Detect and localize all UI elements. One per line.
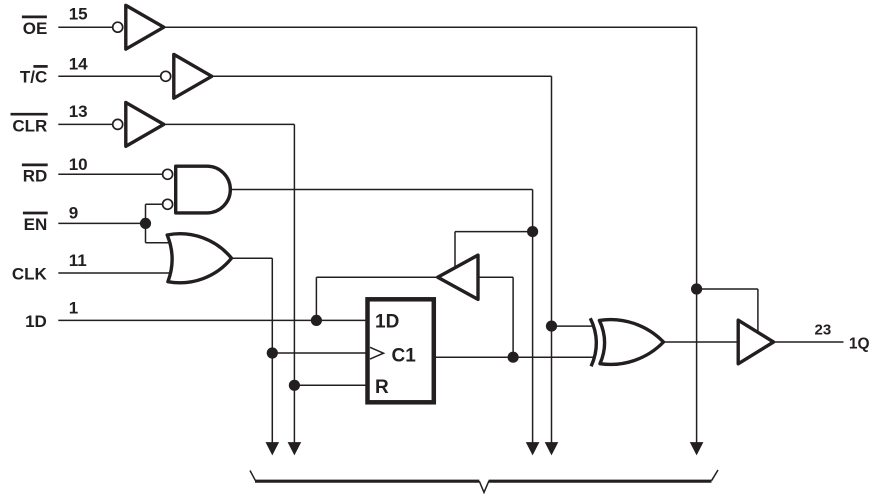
AND gate G1 (RD,EN inverting inputs): [163, 166, 231, 213]
svg-text:11: 11: [69, 251, 87, 270]
wire AND vertical: [532, 190, 534, 447]
svg-text:OE: OE: [23, 19, 48, 38]
wire feedback vertical: [512, 277, 514, 357]
input label T/C (overline on C): [20, 66, 48, 86]
svg-text:9: 9: [69, 204, 78, 223]
junction dot CLR net: [289, 380, 300, 391]
arrow to other channels (CLR net): [288, 442, 302, 455]
svg-text:CLK: CLK: [12, 264, 48, 283]
wire EN input: [58, 222, 145, 224]
wire T/C vertical: [551, 76, 553, 446]
wire AND net to inverter enable: [455, 231, 533, 233]
svg-text:R: R: [375, 377, 389, 398]
wire CLK input: [58, 272, 170, 274]
wire output enable vertical: [757, 289, 759, 332]
wire OR vertical (clock net): [271, 258, 273, 446]
wire RD input: [58, 173, 162, 175]
buffer U1 OE (inverting input bubble): [113, 5, 164, 49]
flip-flop clock wedge: [370, 347, 384, 359]
junction dot clock net: [267, 347, 278, 358]
output buffer U6: [738, 320, 773, 364]
wire OE input: [58, 26, 112, 28]
junction dot T/C net: [546, 321, 557, 332]
input label EN (with overline): [23, 213, 48, 234]
wire 1D input: [58, 319, 367, 321]
wire OE net: [164, 26, 697, 28]
wire inverter enable vertical: [454, 232, 456, 267]
svg-text:EN: EN: [24, 215, 48, 234]
input label CLR (with overline): [11, 114, 48, 135]
junction dot Q/feedback: [507, 352, 518, 363]
svg-text:RD: RD: [23, 167, 48, 186]
svg-text:CLR: CLR: [12, 116, 47, 135]
inverter U5 (feedback, points left): [438, 255, 478, 299]
flip-flop U4 box: [368, 299, 434, 402]
XOR gate G3: [590, 318, 663, 366]
wire R: [294, 384, 367, 386]
arrow to other channels (clock net): [266, 442, 280, 455]
wire CLR vertical: [293, 124, 295, 446]
wire T/C net: [212, 75, 552, 77]
svg-text:15: 15: [69, 4, 88, 23]
input label RD (with overline): [22, 165, 48, 186]
svg-text:1D: 1D: [25, 312, 47, 331]
svg-text:C1: C1: [392, 346, 417, 367]
wire 1Q output: [775, 341, 844, 343]
buffer U3 CLR (inverting input bubble): [113, 103, 164, 147]
wire T/C input: [58, 75, 160, 77]
wire CLR input: [58, 123, 112, 125]
wire EN branch vertical: [145, 204, 147, 242]
wire OE vertical: [696, 27, 698, 446]
wire OR output: [232, 257, 273, 259]
svg-text:14: 14: [69, 54, 88, 73]
svg-text:1: 1: [69, 299, 78, 318]
brace (to other channels): [250, 470, 718, 492]
arrow to other channels (T/C net): [545, 442, 559, 455]
wire inverter input: [478, 276, 514, 278]
junction dot 1D/feedback: [311, 315, 322, 326]
wire inverter output: [316, 276, 439, 278]
buffer U2 T/C (inverting input bubble): [161, 54, 212, 98]
svg-text:T/C: T/C: [20, 68, 47, 87]
svg-text:1Q: 1Q: [849, 336, 870, 353]
wire Q output: [434, 356, 594, 358]
arrow to other channels (OE net): [690, 442, 704, 455]
wire output enable horizontal: [697, 288, 758, 290]
svg-text:23: 23: [815, 322, 832, 339]
junction dot EN: [140, 218, 151, 229]
junction dot OE net: [691, 283, 702, 294]
OR gate G2 (EN,CLK): [167, 234, 231, 283]
wire CLR net: [164, 123, 295, 125]
wire C1: [272, 352, 367, 354]
svg-text:13: 13: [69, 102, 88, 121]
wire AND output: [231, 189, 533, 191]
wire EN to OR input: [146, 242, 172, 244]
svg-text:1D: 1D: [375, 312, 399, 333]
input label OE (with overline): [22, 17, 47, 38]
svg-text:10: 10: [69, 155, 88, 174]
arrow to other channels (AND net): [526, 442, 540, 455]
wire EN to AND bubble: [146, 203, 162, 205]
wire XOR output: [664, 341, 739, 343]
wire XOR top input: [552, 325, 594, 327]
junction dot AND net: [527, 226, 538, 237]
wire feedback vertical to 1D: [315, 277, 317, 320]
